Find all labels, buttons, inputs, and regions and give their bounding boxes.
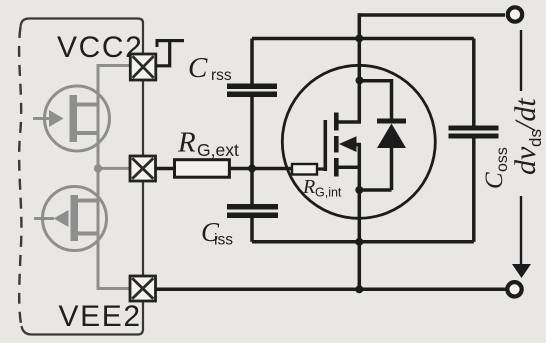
resistor RGext body (175, 160, 230, 178)
svg-text:/dt: /dt (509, 98, 542, 132)
wire source-node horizontal (Ciss to Coss) (252, 240, 474, 244)
wire Coss bottom (472, 139, 476, 242)
clamp symbol at VCC2 pin (156, 39, 185, 66)
Q_H gate bar (70, 95, 78, 142)
junction dot gate node (248, 164, 256, 172)
capacitor Crss plates (227, 84, 277, 90)
junction dot drain-diode (356, 76, 364, 84)
capacitor Coss plates (449, 126, 499, 131)
Q_L source lead (78, 232, 98, 236)
power MOSFET package circle (282, 65, 435, 218)
terminal bottom right (507, 282, 521, 296)
dv/dt annotation line bottom segment (520, 196, 522, 265)
wire bottom rail (156, 288, 506, 292)
wire gray output to middle pin (98, 167, 130, 170)
body diode triangle (377, 124, 406, 149)
wire Crss bottom (250, 97, 254, 168)
junction dot bottom rail (355, 285, 363, 293)
pin box X bottom (VEE2 pin) (130, 276, 156, 301)
driver lower MOSFET Q_L circle (43, 187, 107, 251)
wire Ciss top (250, 168, 254, 204)
gray junction dot (94, 164, 102, 172)
MOSFET body arrow (339, 136, 357, 152)
svg-text:G,int: G,int (315, 186, 342, 200)
wire Coss top (472, 39, 476, 126)
Q_L gate bar (71, 195, 79, 241)
dv/dt annotation line top segment (520, 30, 522, 91)
gate driver block bottom outline (22, 301, 144, 335)
wire gate: Rgint to gate bar (317, 167, 325, 170)
Q_H gate lead (33, 117, 50, 120)
junction dot source-diode (355, 186, 363, 194)
wire gate: Rgext to gate node (229, 167, 292, 171)
MOSFET source lead (339, 166, 362, 170)
svg-text:R: R (302, 176, 315, 198)
wire source vertical (358, 145, 362, 290)
body diode cathode bar (377, 119, 406, 124)
body diode bottom wire (359, 146, 391, 190)
svg-text:VEE2: VEE2 (59, 300, 142, 333)
wire gate: pin to Rgext (156, 167, 175, 171)
MOSFET drain lead (339, 120, 362, 124)
wire drain-node horizontal (Crss to Coss) (252, 37, 474, 41)
Q_L gate lead (34, 217, 54, 220)
Q_H drain lead (77, 103, 98, 107)
terminal top right (508, 7, 522, 21)
pin box X top (VCC2 pin) (130, 54, 156, 80)
body diode top wire (360, 81, 392, 119)
svg-text:iss: iss (214, 232, 233, 249)
pin box X middle (gate output pin) (130, 156, 156, 181)
label Coss (rotated) (481, 147, 511, 189)
wire drain vertical (358, 13, 362, 122)
MOSFET channel segment drain (334, 113, 339, 131)
Q_L drain lead (78, 199, 98, 203)
wire Ciss bottom (250, 218, 254, 242)
MOSFET channel segment body (334, 136, 339, 153)
Q_H gate arrow (49, 110, 64, 127)
svg-text:C: C (188, 52, 208, 84)
svg-text:G,ext: G,ext (197, 140, 239, 160)
MOSFET gate bar (324, 120, 328, 171)
svg-text:R: R (177, 127, 196, 159)
junction dot source node mid (355, 238, 363, 246)
resistor RGint body (292, 164, 317, 175)
driver upper MOSFET Q_H circle (45, 86, 110, 151)
wire Crss top (250, 39, 254, 84)
Q_H source lead (77, 131, 98, 135)
capacitor Ciss plates (227, 204, 278, 210)
MOSFET channel segment source (334, 158, 339, 177)
MOSFET body lead (356, 143, 361, 147)
torn dashed left edge (19, 27, 21, 326)
svg-text:C: C (481, 172, 508, 189)
Q_L gate arrow (54, 210, 69, 227)
svg-text:rss: rss (211, 67, 232, 84)
svg-text:ds: ds (526, 129, 545, 147)
label dvds/dt (rotated) (509, 98, 545, 175)
svg-text:dv: dv (509, 146, 542, 175)
wire top rail (359, 13, 505, 17)
dv/dt arrowhead (512, 264, 531, 278)
gray internal rail (driver output wiring) (98, 66, 131, 289)
junction dot drain node top (355, 34, 363, 42)
gate driver block outline (torn box) (21, 19, 144, 55)
gate driver block right edge segments (142, 80, 144, 276)
